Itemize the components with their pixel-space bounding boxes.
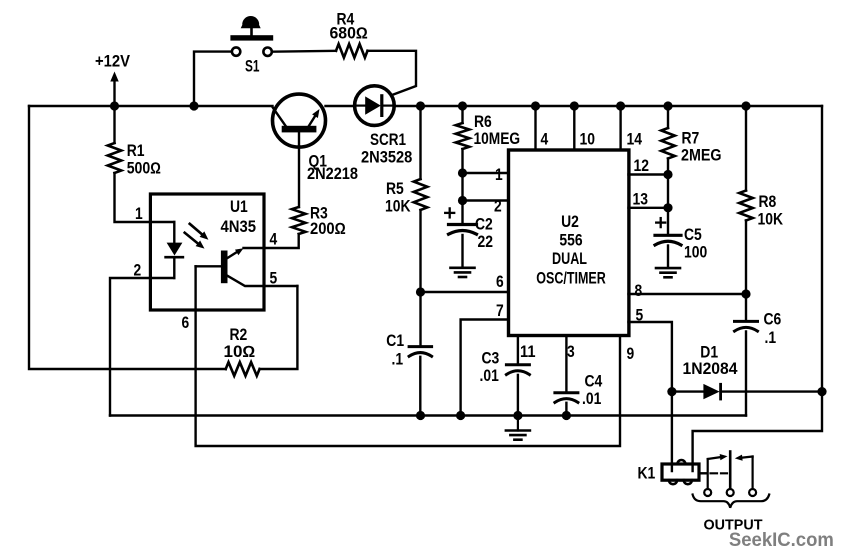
label 4N35 [221, 218, 257, 236]
wire +12V rail middle segment [326, 105, 355, 107]
svg-text:13: 13 [633, 191, 649, 209]
wire ground rail [110, 414, 746, 416]
label R6 [474, 113, 492, 131]
svg-text:9: 9 [627, 345, 635, 363]
label .1 C1 [392, 351, 404, 369]
svg-text:10Ω: 10Ω [224, 343, 256, 361]
relay K1 coil box [662, 464, 699, 480]
resistor R7 [661, 128, 675, 159]
svg-text:C2: C2 [475, 216, 493, 234]
wire +12V rail right segment [394, 105, 822, 107]
label pin 4 [541, 131, 549, 149]
wire node to C6 [745, 294, 747, 320]
label D1 [700, 344, 718, 362]
label pin 9 [627, 345, 635, 363]
diode D1 triangle [703, 384, 719, 399]
transistor Q1 base bar [282, 126, 317, 133]
capacitor C5 [655, 235, 681, 245]
label 2N2218 [307, 165, 358, 183]
label pin 12 [634, 157, 650, 175]
wire pin 2 U2 [463, 199, 509, 201]
svg-text:680Ω: 680Ω [330, 25, 369, 43]
label 2MEG [681, 147, 722, 165]
label R3 [310, 204, 328, 222]
transistor Q1 right lead arrow [309, 109, 320, 127]
node junction pin7 ground [456, 411, 465, 420]
svg-text:2N3528: 2N3528 [361, 149, 412, 167]
svg-text:10: 10 [580, 131, 596, 149]
svg-text:100: 100 [684, 244, 707, 262]
wire C3 to ground rail [517, 375, 519, 416]
node junction D1/right edge [817, 387, 826, 396]
label pin 7 [496, 302, 504, 320]
label 10K [385, 198, 411, 216]
wire node to C1 [419, 292, 421, 345]
label 10Ohm [224, 343, 256, 361]
node junction pin 14 branch [616, 101, 625, 110]
capacitor C4 [555, 393, 578, 403]
wire R6 to pin1 node [461, 149, 463, 173]
wire D1 cathode to right edge [721, 390, 822, 392]
relay contact terminal circles [704, 489, 756, 496]
ground symbol C5 [656, 268, 680, 277]
photo-transistor U1 collector arrow [228, 248, 244, 258]
node junction R6 branch [458, 101, 467, 110]
svg-text:11: 11 [520, 343, 536, 361]
label pin 10 [580, 131, 596, 149]
svg-text:6: 6 [182, 314, 190, 332]
svg-text:.01: .01 [480, 367, 499, 385]
svg-text:S1: S1 [245, 58, 260, 76]
wire right edge rail to D1 [821, 106, 823, 392]
label pin 5 U1 [270, 270, 278, 288]
label OSC/TIMER [536, 270, 606, 288]
wire S1 to R4 [272, 50, 336, 53]
svg-text:1N2084: 1N2084 [683, 360, 738, 378]
svg-text:C4: C4 [585, 373, 603, 391]
scr SCR1 inner wires [355, 104, 394, 106]
label pin 3 [567, 343, 575, 361]
wire pin 12 U2 [629, 173, 669, 175]
wire R8 to pin8 node [745, 221, 747, 295]
label pin 6 [496, 273, 504, 291]
wire C6 to ground rail [745, 332, 747, 416]
label pin 14 [627, 131, 643, 149]
label 10K R8 [758, 211, 784, 229]
label 680Ohm [330, 25, 369, 43]
wire U1 pin 2 to ground rail [110, 278, 174, 416]
resistor R2 [226, 362, 260, 376]
node junction R8 branch [741, 101, 750, 110]
svg-text:R6: R6 [474, 113, 492, 131]
wire U1 pin 6 to U2 pin 9 [196, 266, 620, 446]
wire pin 8 U2 [629, 293, 747, 295]
transistor Q1 left lead [273, 108, 286, 127]
node junction C1 ground [416, 411, 425, 420]
wire pin 13 U2 [629, 207, 669, 209]
capacitor C5 plus sign [656, 218, 665, 227]
node junction R7/pin12 [663, 170, 672, 179]
relay K1 coil top loop [677, 460, 685, 464]
node junction S1 branch [189, 101, 198, 110]
label 2N3528 [361, 149, 412, 167]
wire C4 to ground rail [565, 403, 567, 416]
photo-transistor U1 bar [221, 251, 228, 284]
light arrow 1 [190, 224, 209, 240]
wire R7 to pin12 node [667, 159, 669, 175]
label pin 11 [520, 343, 536, 361]
svg-text:4: 4 [541, 131, 549, 149]
label C2 [475, 216, 493, 234]
svg-text:2MEG: 2MEG [681, 147, 722, 165]
svg-text:4N35: 4N35 [221, 218, 257, 236]
opto-coupler U1 box [150, 194, 264, 310]
svg-text:10MEG: 10MEG [474, 130, 521, 148]
svg-text:R2: R2 [230, 326, 248, 344]
svg-text:R7: R7 [682, 130, 700, 148]
wire pin 5 U2 to D1 node [629, 322, 672, 392]
wire pin 3 to C4 [565, 336, 567, 392]
relay K1 armature link dashed [699, 472, 727, 474]
svg-text:.1: .1 [765, 329, 777, 347]
scr SCR1 body circle [355, 86, 395, 126]
label C4 [585, 373, 603, 391]
diode LED U1 anode lead [173, 222, 175, 243]
svg-text:10K: 10K [385, 198, 411, 216]
label 556 [559, 232, 582, 250]
label pin 13 [633, 191, 649, 209]
wire pin 1 U2 [463, 172, 509, 174]
svg-text:DUAL: DUAL [552, 250, 587, 268]
resistor R5 [414, 179, 428, 210]
capacitor C2 [449, 225, 477, 235]
label R5 [386, 180, 404, 198]
node junction pin2/C2 [458, 196, 467, 205]
watermark SeekIC.com [729, 529, 834, 551]
label 10MEG [474, 130, 521, 148]
node junction R7 branch [663, 101, 672, 110]
label SCR1 [370, 131, 406, 149]
label C3 [482, 350, 500, 368]
wire D1 node to K1 coil [671, 392, 673, 471]
svg-text:12: 12 [634, 157, 650, 175]
label .01 C3 [480, 367, 499, 385]
label R8 [759, 193, 777, 211]
diode LED U1 cathode bar [166, 256, 183, 259]
node junction pin13/C5 [663, 203, 672, 212]
svg-text:C3: C3 [482, 350, 500, 368]
node junction C3 ground [513, 411, 522, 420]
wire pin 6 U2 [421, 291, 509, 293]
label C6 [764, 311, 782, 329]
label DUAL [552, 250, 587, 268]
scr SCR1 cathode bar [380, 96, 383, 116]
power +12V supply arrow [110, 72, 118, 107]
label pin 2 U1 [134, 262, 142, 280]
label 1N2084 [683, 360, 738, 378]
switch S1 actuator bar [230, 35, 273, 40]
label pin 8 [635, 282, 643, 300]
wire node to C2 [461, 201, 463, 225]
label 22 [478, 233, 494, 251]
wire pin 7 U2 to ground rail [461, 320, 509, 416]
wire D1 anode [672, 390, 704, 392]
svg-text:556: 556 [559, 232, 582, 250]
svg-text:U2: U2 [561, 213, 579, 231]
wire rail to R5 [419, 106, 421, 179]
svg-text:R5: R5 [386, 180, 404, 198]
relay K1 coil bottom loops [669, 480, 692, 484]
capacitor C6 [735, 321, 758, 331]
switch S1 button cap [241, 16, 261, 35]
node junction R6/pin1 [458, 168, 467, 177]
svg-text:7: 7 [496, 302, 504, 320]
svg-text:K1: K1 [638, 465, 656, 483]
label pin 2 [494, 198, 502, 216]
svg-text:+12V: +12V [95, 53, 130, 71]
ic U2 556 box [509, 150, 629, 336]
wire R3 to U1 pin 4 [244, 234, 299, 248]
label K1 [638, 465, 656, 483]
wire node to C5 [667, 208, 669, 235]
label .1 C6 [765, 329, 777, 347]
wire C1 to ground rail [419, 357, 421, 416]
wire left edge to R2 [29, 106, 226, 369]
wire pin1 to pin2 node [461, 173, 463, 201]
diode D1 cathode bar [719, 384, 722, 399]
label S1 [245, 58, 260, 76]
svg-text:2: 2 [494, 198, 502, 216]
resistor R3 [292, 207, 306, 234]
resistor R8 [739, 191, 753, 221]
node junction R5 branch [416, 101, 425, 110]
node junction R8/pin8/C6 [741, 289, 750, 298]
label .01 C4 [582, 390, 601, 408]
label R1 [127, 142, 145, 160]
node junction pin 10 branch [570, 101, 579, 110]
svg-text:10K: 10K [758, 211, 784, 229]
scr SCR1 anode triangle [365, 96, 381, 114]
wire C2 to ground [461, 235, 463, 268]
wire rail to R8 [745, 106, 747, 191]
label C1 [386, 332, 404, 350]
label pin 4 U1 [270, 231, 278, 249]
wire pin 11 to C3 [517, 336, 519, 364]
wire pin 4 U2 [534, 106, 536, 151]
diode LED U1 triangle [167, 243, 183, 256]
relay NO contact arrow [735, 455, 753, 490]
svg-text:C6: C6 [764, 311, 782, 329]
wire R5 to pin6 node [419, 210, 421, 292]
label pin 6 U1 [182, 314, 190, 332]
wire R2 to U1 pin 5 [260, 286, 298, 369]
node junction R5/C1/pin6 [416, 287, 425, 296]
capacitor C3 [506, 365, 529, 375]
light arrow 2 [185, 233, 205, 249]
relay contact armature bar [729, 452, 732, 490]
wire C5 to ground [667, 246, 669, 268]
svg-text:200Ω: 200Ω [310, 220, 346, 238]
wire right edge to K1 [693, 392, 822, 471]
svg-text:500Ω: 500Ω [127, 160, 161, 178]
capacitor C1 [409, 347, 432, 357]
label Q1 [309, 153, 328, 171]
svg-text:SeekIC.com: SeekIC.com [729, 529, 834, 551]
node junction +12V/R1 [110, 101, 119, 110]
wire rail to R1 [113, 106, 115, 143]
svg-text:1: 1 [135, 205, 143, 223]
ground symbol main [506, 416, 530, 440]
svg-text:U1: U1 [230, 198, 248, 216]
label 100 [684, 244, 707, 262]
switch S1 left contact [232, 47, 240, 55]
svg-text:R8: R8 [759, 193, 777, 211]
label 200Ohm [310, 220, 346, 238]
label R2 [230, 326, 248, 344]
wire pin 14 U2 [619, 106, 621, 151]
svg-text:OSC/TIMER: OSC/TIMER [536, 270, 606, 288]
svg-text:1: 1 [495, 166, 503, 184]
wire rail to R7 [667, 106, 669, 128]
wire rail to R6 [461, 106, 463, 123]
svg-text:6: 6 [496, 273, 504, 291]
label +12V [95, 53, 130, 71]
label OUTPUT [704, 517, 763, 534]
wire pin 10 U2 [573, 106, 575, 151]
svg-text:14: 14 [627, 131, 643, 149]
svg-text:4: 4 [270, 231, 278, 249]
node junction pin5/D1/K1 [667, 387, 676, 396]
svg-text:2N2218: 2N2218 [307, 165, 358, 183]
wire R4 to SCR1 gate [368, 51, 417, 96]
svg-text:R1: R1 [127, 142, 145, 160]
wire pin12 to pin13 node [667, 175, 669, 208]
transistor Q1 body circle [273, 94, 326, 147]
label pin 1 U1 [135, 205, 143, 223]
svg-text:.01: .01 [582, 390, 601, 408]
label C5 [684, 226, 702, 244]
svg-text:SCR1: SCR1 [370, 131, 406, 149]
svg-text:C1: C1 [386, 332, 404, 350]
svg-text:5: 5 [270, 270, 278, 288]
svg-text:D1: D1 [700, 344, 718, 362]
label R7 [682, 130, 700, 148]
wire +12V rail left segment [29, 105, 273, 107]
wire R1 to U1 pin 1 [115, 173, 175, 222]
svg-text:C5: C5 [684, 226, 702, 244]
resistor R4 [336, 44, 368, 58]
relay NC contact arrow [708, 454, 728, 489]
label U1 [230, 198, 248, 216]
svg-text:.1: .1 [392, 351, 404, 369]
node junction C4 ground [562, 411, 571, 420]
svg-text:3: 3 [567, 343, 575, 361]
switch S1 right contact [263, 48, 271, 56]
photo-transistor U1 base line [196, 265, 221, 267]
label 500Ohm [127, 160, 161, 178]
label pin 5 [636, 307, 644, 325]
output brace [693, 495, 770, 508]
photo-transistor U1 emitter lead [228, 276, 298, 286]
node junction pin 4 branch [531, 101, 540, 110]
capacitor C2 plus sign [445, 208, 454, 217]
label pin 1 [495, 166, 503, 184]
svg-text:22: 22 [478, 233, 494, 251]
resistor R1 [108, 143, 122, 173]
transistor Q1 collector lead down [298, 132, 300, 207]
label R4 [337, 11, 355, 29]
ground symbol C2 [451, 268, 475, 277]
label U2 [561, 213, 579, 231]
svg-text:8: 8 [635, 282, 643, 300]
wire S1 left branch [194, 52, 232, 106]
resistor R6 [456, 123, 470, 149]
diode LED U1 cathode lead [173, 257, 175, 278]
